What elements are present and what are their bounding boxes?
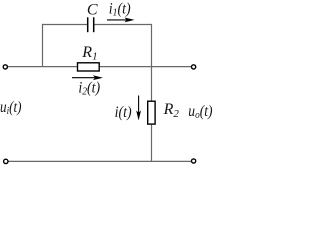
- svg-text:C: C: [87, 2, 98, 19]
- resistor R2: [148, 101, 180, 124]
- wire right branch upper: [151, 24, 153, 101]
- wire right branch lower: [151, 125, 153, 162]
- wire bottom rail: [8, 160, 192, 162]
- bottom-left terminal: [4, 159, 8, 163]
- wire top rail left of capacitor: [42, 24, 87, 26]
- svg-text:uo(t): uo(t): [188, 103, 212, 121]
- svg-text:i(t): i(t): [115, 104, 132, 121]
- capacitor C: [87, 2, 98, 33]
- wire mid rail left segment: [7, 66, 76, 68]
- svg-text:R2: R2: [163, 101, 180, 120]
- wire left branch vertical: [42, 24, 44, 67]
- current arrow i1(t): [107, 0, 135, 22]
- resistor R1: [78, 44, 100, 71]
- svg-text:R1: R1: [81, 44, 97, 63]
- current arrow i(t): [115, 96, 141, 121]
- wire top rail right of capacitor: [94, 24, 152, 26]
- svg-text:i1(t): i1(t): [109, 0, 131, 18]
- svg-text:ui(t): ui(t): [0, 99, 22, 117]
- svg-text:i2(t): i2(t): [78, 80, 100, 98]
- wire mid rail right segment: [100, 66, 191, 68]
- output terminal top-right: [192, 65, 196, 69]
- input terminal top-left: [3, 65, 7, 69]
- bottom-right terminal: [192, 159, 196, 163]
- current arrow i2(t): [72, 75, 103, 97]
